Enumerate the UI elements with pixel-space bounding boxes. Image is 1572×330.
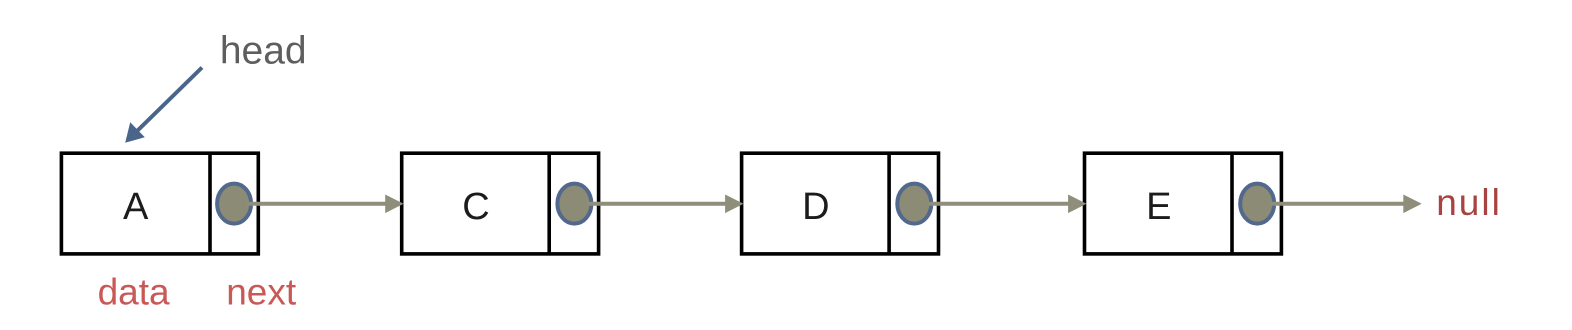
node E next pointer dot	[1240, 184, 1274, 224]
node D box	[742, 153, 939, 254]
node C box	[402, 153, 599, 254]
svg-text:data: data	[98, 272, 170, 313]
node E box	[1085, 153, 1282, 254]
pointer arrow C to D	[587, 195, 743, 214]
node D next pointer dot	[897, 184, 931, 224]
node A next pointer dot	[217, 184, 251, 224]
svg-text:A: A	[123, 186, 149, 228]
node C next pointer dot	[557, 184, 591, 224]
svg-text:next: next	[226, 272, 297, 313]
head arrow	[125, 68, 202, 143]
svg-text:head: head	[220, 30, 307, 73]
pointer arrow A to C	[247, 195, 404, 214]
svg-text:E: E	[1146, 186, 1171, 228]
node A box	[61, 153, 258, 254]
pointer arrow D to E	[927, 195, 1086, 214]
svg-text:C: C	[462, 186, 489, 228]
svg-text:null: null	[1436, 182, 1502, 223]
pointer arrow E to null	[1270, 195, 1422, 214]
svg-text:D: D	[802, 186, 829, 228]
